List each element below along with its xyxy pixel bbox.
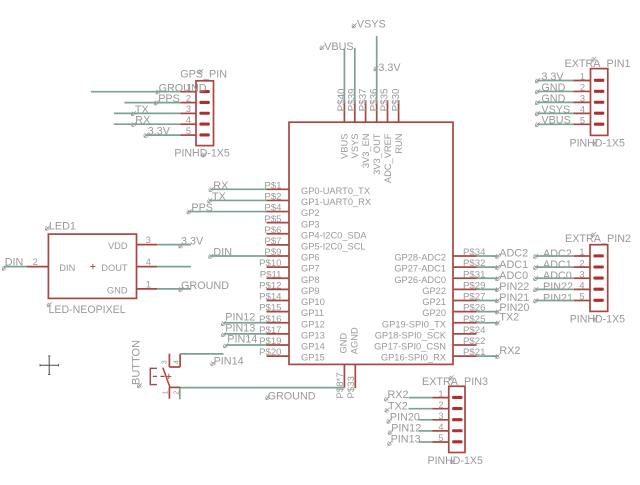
wire PIN22 net to EXTRA_PIN2 4 xyxy=(535,288,574,290)
svg-text:GP19-SPI0_TX: GP19-SPI0_TX xyxy=(382,319,446,329)
svg-text:3.3V: 3.3V xyxy=(181,236,204,248)
U1 pin name VBUS (rotated) xyxy=(340,134,350,159)
EXTRA_PIN3 pin 3 stub xyxy=(433,419,449,421)
svg-text:VDD: VDD xyxy=(108,241,128,251)
svg-text:GP13: GP13 xyxy=(301,330,325,340)
net label 3.3V (LED) xyxy=(179,236,204,248)
svg-text:GP22: GP22 xyxy=(422,286,446,296)
svg-text:1: 1 xyxy=(438,389,443,399)
svg-text:4: 4 xyxy=(438,422,443,432)
wire at LED1 DOUT (unconnected) xyxy=(157,266,191,268)
svg-text:PIN13: PIN13 xyxy=(391,434,421,446)
wire 3.3V net to GPS_PIN 5 xyxy=(146,134,181,136)
IC U1 Raspberry Pi Pico module body xyxy=(289,122,453,364)
svg-text:BUTTON: BUTTON xyxy=(130,340,142,385)
svg-text:GROUND: GROUND xyxy=(181,280,229,292)
U1 bottom pin P$33 (AGND) stub xyxy=(354,364,356,388)
connector GPS_PIN title xyxy=(180,68,227,80)
EXTRA_PIN3 pin number 4 xyxy=(438,422,443,432)
supply symbol VSYS xyxy=(352,19,386,31)
GPS_PIN pin number 5 xyxy=(186,126,191,136)
button pin 1 stub xyxy=(168,387,170,398)
U1 pin name GP2 xyxy=(301,208,320,218)
BUTTON title origin cross xyxy=(138,383,142,387)
net label PPS (GPS) xyxy=(154,93,179,105)
LED1 pin name VDD (inside) xyxy=(108,241,128,251)
U1 pin number label P$29 xyxy=(463,280,485,291)
U1 left pin P$12 (GP9) stub xyxy=(267,288,290,290)
svg-text:2: 2 xyxy=(580,83,585,93)
button actuator dashed link xyxy=(153,375,167,377)
button bottom contact plate xyxy=(169,386,180,388)
U1 left pin P$19 (GP14) stub xyxy=(267,344,290,346)
U1 left pin P$15 (GP11) stub xyxy=(267,311,290,313)
BUTTON title (rotated) xyxy=(130,340,142,385)
svg-text:GP12: GP12 xyxy=(301,319,325,329)
svg-text:GP15: GP15 xyxy=(301,353,325,363)
U1 pin number label P$17 xyxy=(259,325,281,336)
U1 pin name GP21 xyxy=(422,297,446,307)
net label RX2 xyxy=(496,345,521,359)
U1 pin name AGND (rotated) xyxy=(350,327,360,354)
EXTRA_PIN1 pin 3 stub xyxy=(574,101,591,103)
svg-text:PPS: PPS xyxy=(191,202,213,214)
wire 3.3V net to EXTRA_PIN1 1 xyxy=(537,80,574,82)
net label ADC1 (EXTRA_PIN2) xyxy=(534,259,572,271)
EXTRA_PIN3 pin 2 stub xyxy=(433,408,449,410)
U1 pin name GP1-UART0_RX xyxy=(301,197,371,207)
svg-text:4: 4 xyxy=(146,257,151,267)
EXTRA_PIN1 pin 5 stub xyxy=(574,123,591,125)
U1 pin number label P$40 (rotated) xyxy=(337,88,348,111)
EXTRA_PIN3 pin 1 stub xyxy=(433,397,449,399)
svg-text:4: 4 xyxy=(580,105,585,115)
supply symbol 3.3V xyxy=(374,62,401,74)
sheet origin cross marker xyxy=(40,356,59,375)
wire VSYS net to EXTRA_PIN1 4 xyxy=(537,112,574,114)
svg-text:P$4: P$4 xyxy=(264,203,282,214)
svg-text:5: 5 xyxy=(579,292,584,302)
svg-text:GP7: GP7 xyxy=(301,264,320,274)
svg-text:VBUS: VBUS xyxy=(541,115,570,127)
GPS_PIN value PINHD-1X5 xyxy=(174,147,229,159)
U1 pin number label P$35 (rotated) xyxy=(380,88,391,111)
svg-text:GP8: GP8 xyxy=(301,275,320,285)
wire ADC0 net to EXTRA_PIN2 3 xyxy=(535,277,574,279)
U1 pin number label P$30 (rotated) xyxy=(391,88,402,111)
svg-text:GP28-ADC2: GP28-ADC2 xyxy=(394,253,446,263)
svg-text:P$5: P$5 xyxy=(264,214,281,225)
GPS_PIN pad 4 xyxy=(199,123,209,126)
EXTRA_PIN2 pin 3 stub xyxy=(574,277,590,279)
button lever xyxy=(163,368,170,388)
U1 left pin P$2 (GP1-UART0_RX) stub xyxy=(267,199,290,201)
connector EXTRA_PIN3 body PINHD-1X5 xyxy=(449,386,465,452)
U1 pin name GP17-SPI0_CSN xyxy=(374,342,446,352)
EXTRA_PIN3 pin number 1 xyxy=(438,389,443,399)
svg-text:GP27-ADC1: GP27-ADC1 xyxy=(394,264,446,274)
net label 3.3V (EXTRA_PIN1) xyxy=(535,71,564,83)
LED1 part origin cross xyxy=(90,264,95,269)
EXTRA_PIN2 pin 5 stub xyxy=(574,300,590,302)
connector EXTRA_PIN2 body PINHD-1X5 xyxy=(590,245,608,312)
LED1 pin 1 (GND) stub xyxy=(137,288,158,290)
wire PIN13 net at U1 P$17 xyxy=(224,333,267,335)
U1 pin name GP19-SPI0_TX xyxy=(382,319,446,329)
EXTRA_PIN2 pin number 2 xyxy=(579,258,584,268)
U1 pin number label P$34 xyxy=(463,247,486,258)
connector EXTRA_PIN1 body PINHD-1X5 xyxy=(591,69,608,136)
U1 pin number label P$5 xyxy=(264,214,281,225)
U1 pin name 3V3_EN (rotated) xyxy=(361,134,371,169)
LED1 pin name DIN (inside) xyxy=(59,263,75,273)
EXTRA_PIN3 pin 4 stub xyxy=(433,430,449,432)
EXTRA_PIN2 pad 2 xyxy=(593,265,603,268)
svg-text:GPS_PIN: GPS_PIN xyxy=(180,68,227,80)
U1 right pin P$29 (GP22) stub xyxy=(453,288,477,290)
EXTRA_PIN2 pin number 4 xyxy=(579,281,584,291)
EXTRA_PIN3 pin 5 stub xyxy=(433,441,449,443)
net label PIN14 xyxy=(224,334,258,348)
wire ADC2 net to EXTRA_PIN2 1 xyxy=(535,255,574,257)
svg-text:P$14: P$14 xyxy=(259,292,282,303)
svg-text:5: 5 xyxy=(580,116,585,126)
EXTRA_PIN3 pad 5 xyxy=(452,440,462,443)
wire TX net at U1 P$2 xyxy=(209,199,267,201)
svg-text:GND: GND xyxy=(107,285,128,295)
U1 pin name GP16-SPI0_RX xyxy=(381,353,446,363)
wire TX2 net to EXTRA_PIN3 2 xyxy=(409,408,433,410)
wire ADC1 net to EXTRA_PIN2 2 xyxy=(535,266,574,268)
U1 left pin P$5 (GP3) stub xyxy=(267,222,290,224)
net label PIN12 (EXTRA_PIN3) xyxy=(388,423,421,435)
button pin number 1 (rotated) xyxy=(162,391,169,395)
svg-text:2: 2 xyxy=(579,258,584,268)
EXTRA_PIN1 pad 4 xyxy=(594,112,604,115)
svg-text:P$12: P$12 xyxy=(259,280,281,291)
svg-text:RUN: RUN xyxy=(394,134,404,154)
U1 left pin P$6 (GP4-I2C0_SDA) stub xyxy=(267,233,290,235)
svg-text:ADC_VREF: ADC_VREF xyxy=(383,133,393,183)
svg-text:GP9: GP9 xyxy=(301,286,320,296)
U1 pin name GP4-I2C0_SDA xyxy=(301,230,367,240)
svg-text:GP20: GP20 xyxy=(422,308,446,318)
wire PPS net to GPS_PIN 2 xyxy=(124,102,180,104)
LED1 LED-NEOPIXEL body xyxy=(48,234,136,298)
net label PIN14 (button) xyxy=(211,355,244,367)
U1 pin name 3V3_OUT (rotated) xyxy=(372,133,382,175)
wire PIN14 net from button pin 4 xyxy=(180,353,223,355)
wire PIN21 net to EXTRA_PIN2 5 xyxy=(535,300,574,302)
U1 pin name GP9 xyxy=(301,286,320,296)
net label ADC2 (EXTRA_PIN2) xyxy=(534,248,572,260)
U1 top pin P$36 (3V3_OUT) stub xyxy=(376,100,378,122)
wire GROUND net from U1 P$8*7 to button pin 2 xyxy=(180,387,345,389)
svg-text:DIN: DIN xyxy=(5,257,24,269)
U1 pin name GP27-ADC1 xyxy=(394,264,446,274)
svg-text:3: 3 xyxy=(580,94,585,104)
wire PIN13 net to EXTRA_PIN3 5 xyxy=(419,441,433,443)
wire 3V3_OUT net from U1 P$36 going up xyxy=(376,36,378,101)
GPS_PIN pin number 2 xyxy=(186,93,191,103)
U1 pin number label P$21 xyxy=(463,347,485,358)
net label PIN21 (EXTRA_PIN2) xyxy=(534,292,573,304)
svg-text:P$39: P$39 xyxy=(347,89,358,112)
svg-text:3.3V: 3.3V xyxy=(148,126,171,138)
wire PIN12 net at U1 P$16 xyxy=(224,322,267,324)
U1 top pin P$30 (RUN) stub xyxy=(398,100,400,122)
svg-text:PINHD-1X5: PINHD-1X5 xyxy=(570,137,625,149)
U1 pin number label P$36 (rotated) xyxy=(369,88,380,111)
GPS_PIN pin 3 stub xyxy=(180,112,196,114)
svg-text:3: 3 xyxy=(161,360,168,364)
U1 pin name GP12 xyxy=(301,319,325,329)
U1 pin number label P$39 (rotated) xyxy=(347,89,358,112)
EXTRA_PIN1 value PINHD-1X5 xyxy=(570,137,625,149)
wire TX net to GPS_PIN 3 xyxy=(114,112,180,114)
button top contact plate xyxy=(169,366,180,368)
U1 pin name GND (rotated) xyxy=(339,333,349,354)
GPS_PIN pad 1 xyxy=(199,90,209,93)
U1 pin number label P$12 xyxy=(259,280,281,291)
wire PIN21 net at U1 right xyxy=(477,300,498,302)
svg-text:P$22: P$22 xyxy=(463,336,485,347)
U1 right pin P$34 (GP28-ADC2) stub xyxy=(453,255,477,257)
svg-text:P$20: P$20 xyxy=(259,347,281,358)
U1 bottom pin P$8*7 (GND) stub xyxy=(343,364,345,387)
wire 3.3V net at LED1 VDD xyxy=(157,244,191,246)
connector EXTRA_PIN3 title xyxy=(422,375,488,388)
svg-text:2: 2 xyxy=(174,391,181,395)
U1 left pin P$16 (GP12) stub xyxy=(267,322,290,324)
U1 pin number label P$4 xyxy=(264,203,282,214)
svg-text:P$40: P$40 xyxy=(337,88,348,111)
U1 pin name GP6 xyxy=(301,253,320,263)
svg-text:RX2: RX2 xyxy=(499,345,520,357)
U1 pin name GP7 xyxy=(301,264,320,274)
wire RX2 net at U1 P$21 xyxy=(477,355,499,357)
svg-text:DIN: DIN xyxy=(59,263,75,273)
U1 pin number label P$9 xyxy=(264,247,281,258)
U1 pin name GP26-ADC0 xyxy=(394,275,446,285)
svg-text:GP3: GP3 xyxy=(301,219,320,229)
svg-text:3: 3 xyxy=(438,411,443,421)
U1 pin name GP20 xyxy=(422,308,446,318)
net label RX xyxy=(209,180,228,192)
net label GND (EXTRA_PIN1) xyxy=(535,82,565,94)
U1 pin name GP10 xyxy=(301,297,325,307)
EXTRA_PIN1 pad 5 xyxy=(594,123,604,126)
svg-text:EXTRA_PIN2: EXTRA_PIN2 xyxy=(565,233,631,245)
net label PIN13 xyxy=(222,323,256,337)
EXTRA_PIN2 pin 1 stub xyxy=(574,255,590,257)
svg-text:4: 4 xyxy=(186,115,191,125)
wire GND net to EXTRA_PIN1 2 xyxy=(537,90,574,92)
svg-text:GP10: GP10 xyxy=(301,297,325,307)
svg-text:1: 1 xyxy=(579,247,584,257)
U1 pin number label P$25 xyxy=(463,314,485,325)
U1 pin name GP13 xyxy=(301,330,325,340)
wire PIN22 net at U1 right xyxy=(477,288,498,290)
wire GND net to EXTRA_PIN1 3 xyxy=(537,101,574,103)
svg-text:GROUND: GROUND xyxy=(268,390,316,402)
U1 pin number label P$7 xyxy=(264,236,281,247)
U1 pin number label P$6 xyxy=(264,225,281,236)
wire RX net to GPS_PIN 4 xyxy=(114,123,180,125)
svg-text:GP1-UART0_RX: GP1-UART0_RX xyxy=(301,197,371,207)
U1 left pin P$10 (GP7) stub xyxy=(267,266,290,268)
svg-text:DOUT: DOUT xyxy=(101,263,128,273)
U1 pin number label P$19 xyxy=(259,336,281,347)
U1 pin number label P$27 xyxy=(463,292,485,303)
U1 pin number label P$16 xyxy=(259,314,281,325)
svg-text:P$35: P$35 xyxy=(380,88,391,111)
EXTRA_PIN3 pin number 2 xyxy=(438,400,443,410)
svg-text:LED-NEOPIXEL: LED-NEOPIXEL xyxy=(49,304,126,316)
U1 pin number label P$37 (rotated) xyxy=(358,89,369,112)
svg-text:5: 5 xyxy=(186,126,191,136)
svg-text:GP5-I2C0_SCL: GP5-I2C0_SCL xyxy=(301,242,366,252)
svg-text:VBUS: VBUS xyxy=(340,134,350,159)
U1 pin name GP0-UART0_TX xyxy=(301,186,370,196)
svg-text:DIN: DIN xyxy=(213,247,232,259)
EXTRA_PIN2 pad 4 xyxy=(593,288,603,291)
U1 right pin P$22 (GP17-SPI0_CSN) stub xyxy=(453,344,477,346)
wire ADC2 net at U1 right xyxy=(477,255,498,257)
GPS_PIN pin 1 stub xyxy=(180,91,196,93)
EXTRA_PIN2 pad 1 xyxy=(593,254,603,257)
svg-text:PIN14: PIN14 xyxy=(227,334,257,346)
U1 pin number label P$24 xyxy=(463,325,486,336)
net label DIN (LED) xyxy=(2,257,23,271)
svg-text:P$30: P$30 xyxy=(391,88,402,111)
wire DIN net to LED1 pin 2 xyxy=(4,266,27,268)
U1 pin number label P$33 (rotated) xyxy=(346,376,357,398)
U1 right pin P$31 (GP26-ADC0) stub xyxy=(453,277,477,279)
U1 pin name GP22 xyxy=(422,286,446,296)
EXTRA_PIN2 pin 2 stub xyxy=(574,266,590,268)
LED1 title xyxy=(46,221,76,233)
wire TX2 net at U1 P$25 xyxy=(477,322,499,324)
GPS_PIN pin number 3 xyxy=(186,104,191,114)
EXTRA_PIN3 pad 1 xyxy=(452,396,462,399)
svg-text:P$7: P$7 xyxy=(264,236,281,247)
EXTRA_PIN2 pin number 5 xyxy=(579,292,584,302)
EXTRA_PIN1 pin number 5 xyxy=(580,116,585,126)
EXTRA_PIN2 value PINHD-1X5 xyxy=(570,313,625,325)
svg-text:4: 4 xyxy=(174,360,181,364)
U1 left pin P$4 (GP2) stub xyxy=(267,211,290,213)
svg-text:1: 1 xyxy=(146,279,151,289)
svg-text:PIN14: PIN14 xyxy=(214,355,244,367)
GPS_PIN pad 5 xyxy=(199,133,209,136)
wire GROUND vertical tail at button pin 2 xyxy=(179,388,181,400)
svg-text:GP4-I2C0_SDA: GP4-I2C0_SDA xyxy=(301,230,367,240)
EXTRA_PIN2 pad 5 xyxy=(593,299,603,302)
LED1 value LED-NEOPIXEL xyxy=(47,302,125,316)
LED1 pin number 1 xyxy=(146,279,151,289)
GPS_PIN pin number 1 xyxy=(186,83,191,93)
svg-text:VSYS: VSYS xyxy=(350,134,360,159)
svg-text:P$10: P$10 xyxy=(259,258,281,269)
svg-text:P$1: P$1 xyxy=(264,180,281,191)
U1 left pin P$17 (GP13) stub xyxy=(267,333,290,335)
wire ADC1 net at U1 right xyxy=(477,266,498,268)
net label GROUND (bottom) xyxy=(266,390,316,402)
U1 pin number label P$2 xyxy=(264,192,281,203)
U1 right pin P$27 (GP21) stub xyxy=(453,300,477,302)
U1 pin number label P$15 xyxy=(259,303,281,314)
button actuator bracket xyxy=(150,368,157,384)
U1 left pin P$11 (GP8) stub xyxy=(267,277,290,279)
net label PIN22 (EXTRA_PIN2) xyxy=(534,281,573,293)
wire PIN20 net to EXTRA_PIN3 3 xyxy=(419,419,433,421)
button pin 4 stub xyxy=(179,354,181,367)
U1 pin number label P$20 xyxy=(259,347,281,358)
net label RX (GPS) xyxy=(132,115,151,127)
U1 pin number label P$32 xyxy=(463,258,485,269)
EXTRA_PIN1 pin 4 stub xyxy=(574,112,591,114)
LED1 pin 3 (VDD) stub xyxy=(137,244,158,246)
net label TX (GPS) xyxy=(131,104,148,116)
U1 pin number label P$31 xyxy=(463,269,485,280)
U1 right pin P$21 (GP16-SPI0_RX) stub xyxy=(453,355,477,357)
svg-text:P$8*7: P$8*7 xyxy=(335,372,346,398)
svg-text:1: 1 xyxy=(162,391,169,395)
U1 pin name GP28-ADC2 xyxy=(394,253,446,263)
supply symbol VBUS xyxy=(320,41,354,53)
wire GROUND net to GPS_PIN 1 xyxy=(91,91,180,93)
svg-text:P$11: P$11 xyxy=(260,269,282,280)
LED1 pin name DOUT (inside) xyxy=(101,263,128,273)
svg-text:LED1: LED1 xyxy=(49,221,76,233)
svg-text:GP11: GP11 xyxy=(301,308,324,318)
connector EXTRA_PIN1 title xyxy=(565,57,631,70)
EXTRA_PIN3 pin number 3 xyxy=(438,411,443,421)
U1 right pin P$26 (GP20) stub xyxy=(453,311,477,313)
net label PIN20 xyxy=(496,302,530,314)
U1 left pin P$7 (GP5-I2C0_SCL) stub xyxy=(267,244,290,246)
GPS_PIN pin 2 stub xyxy=(180,102,196,104)
connector GPS_PIN body PINHD-1X5 xyxy=(196,81,214,146)
svg-text:P$15: P$15 xyxy=(259,303,281,314)
wire RX net at U1 P$1 xyxy=(211,188,267,190)
wire VSYS net from U1 P$39 going up xyxy=(354,48,356,101)
GPS_PIN pin 4 stub xyxy=(180,123,196,125)
wire RX2 net to EXTRA_PIN3 1 xyxy=(409,397,433,399)
svg-text:2: 2 xyxy=(33,257,38,267)
net label GROUND (LED) xyxy=(179,280,229,292)
LED1 pin number 3 xyxy=(146,235,151,245)
wire ADC0 net at U1 right xyxy=(477,277,498,279)
wire VBUS net to EXTRA_PIN1 5 xyxy=(537,123,574,125)
U1 pin name GP18-SPI0_SCK xyxy=(375,330,447,340)
U1 right pin P$32 (GP27-ADC1) stub xyxy=(453,266,477,268)
net label VBUS (EXTRA_PIN1) xyxy=(535,115,570,127)
U1 top pin P$37 (3V3_EN) stub xyxy=(365,100,367,122)
svg-text:3V3_EN: 3V3_EN xyxy=(361,134,371,169)
net label PIN22 (module side) xyxy=(496,281,530,293)
GPS_PIN pin number 4 xyxy=(186,115,191,125)
U1 pin name GP15 xyxy=(301,353,325,363)
svg-text:P$2: P$2 xyxy=(264,192,281,203)
LED1 pin number 4 xyxy=(146,257,151,267)
svg-text:TX: TX xyxy=(212,191,226,203)
svg-text:GP16-SPI0_RX: GP16-SPI0_RX xyxy=(381,353,446,363)
net label PIN21 (module side) xyxy=(496,292,530,304)
net label PPS xyxy=(187,202,213,214)
U1 right pin P$25 (GP19-SPI0_TX) stub xyxy=(453,322,477,324)
